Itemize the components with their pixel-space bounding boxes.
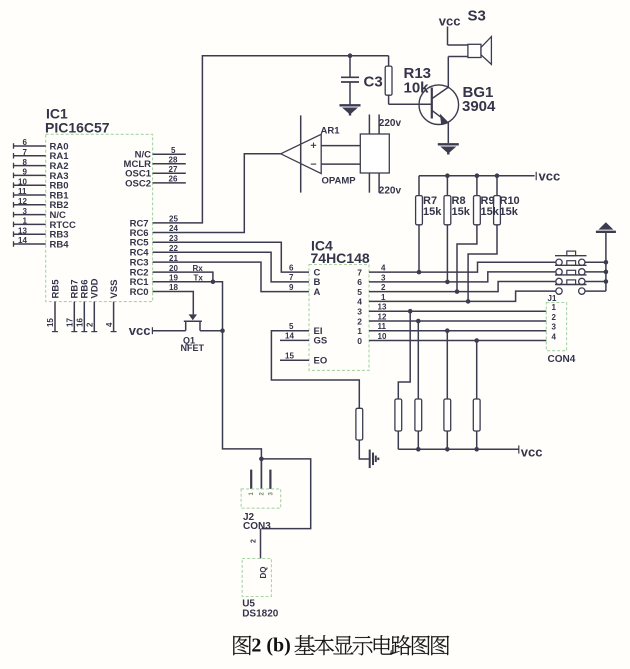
svg-text:2: 2	[357, 316, 362, 326]
svg-text:220v: 220v	[379, 118, 402, 129]
svg-text:CON4: CON4	[548, 354, 576, 365]
svg-text:3: 3	[552, 323, 557, 332]
svg-text:4: 4	[381, 264, 386, 273]
svg-text:17: 17	[66, 318, 75, 327]
svg-text:14: 14	[18, 236, 27, 245]
svg-text:7: 7	[23, 148, 28, 157]
svg-text:1: 1	[23, 217, 28, 226]
svg-text:DS1820: DS1820	[242, 609, 279, 620]
svg-text:15: 15	[46, 318, 55, 327]
svg-text:15k: 15k	[423, 206, 442, 218]
svg-text:EO: EO	[314, 356, 328, 367]
svg-text:6: 6	[23, 138, 28, 147]
svg-text:26: 26	[169, 175, 178, 184]
svg-text:Rx: Rx	[193, 264, 204, 273]
svg-text:10: 10	[18, 177, 27, 186]
svg-text:2: 2	[251, 539, 258, 543]
svg-text:NFET: NFET	[181, 343, 205, 353]
svg-text:6: 6	[357, 277, 362, 287]
svg-text:28: 28	[169, 156, 178, 165]
svg-text:PIC16C57: PIC16C57	[45, 120, 110, 136]
svg-text:27: 27	[169, 165, 178, 174]
svg-text:4: 4	[357, 297, 362, 307]
svg-text:15k: 15k	[500, 206, 519, 218]
svg-text:3: 3	[23, 207, 28, 216]
svg-text:5: 5	[171, 146, 176, 155]
svg-text:11: 11	[18, 187, 27, 196]
svg-text:16: 16	[76, 318, 85, 327]
svg-text:OPAMP: OPAMP	[322, 176, 357, 187]
svg-text:12: 12	[378, 312, 387, 321]
svg-text:7: 7	[357, 267, 362, 277]
svg-text:VSS: VSS	[109, 279, 120, 298]
svg-text:vcc: vcc	[539, 168, 561, 183]
svg-text:1: 1	[552, 303, 557, 312]
svg-text:2: 2	[381, 283, 386, 292]
svg-text:15: 15	[285, 352, 294, 361]
svg-text:vcc: vcc	[439, 14, 461, 29]
svg-text:1: 1	[381, 293, 386, 302]
svg-text:5: 5	[357, 287, 362, 297]
svg-text:5: 5	[289, 322, 294, 331]
svg-text:vcc: vcc	[129, 323, 151, 338]
svg-text:14: 14	[285, 332, 294, 341]
svg-text:4: 4	[552, 333, 557, 342]
svg-text:11: 11	[378, 322, 387, 331]
svg-text:2 (b): 2 (b)	[251, 635, 290, 657]
svg-text:CON3: CON3	[243, 521, 271, 532]
svg-text:3: 3	[357, 307, 362, 317]
svg-text:3: 3	[381, 273, 386, 282]
svg-text:1: 1	[357, 326, 362, 336]
svg-text:2: 2	[552, 313, 557, 322]
svg-text:13: 13	[378, 303, 387, 312]
svg-text:3904: 3904	[462, 98, 496, 115]
svg-text:6: 6	[289, 263, 294, 272]
svg-text:GS: GS	[314, 336, 328, 347]
svg-text:8: 8	[23, 158, 28, 167]
svg-text:15k: 15k	[481, 206, 500, 218]
svg-text:2: 2	[86, 322, 95, 327]
svg-text:74HC148: 74HC148	[311, 250, 370, 266]
svg-text:AR1: AR1	[321, 126, 341, 137]
svg-text:0: 0	[357, 336, 362, 346]
svg-text:7: 7	[289, 273, 294, 282]
svg-text:RB4: RB4	[50, 239, 70, 250]
svg-text:S3: S3	[468, 8, 486, 25]
svg-text:4: 4	[105, 322, 114, 327]
svg-text:A: A	[314, 287, 321, 298]
svg-text:OSC2: OSC2	[125, 178, 151, 189]
svg-text:RB5: RB5	[50, 279, 61, 299]
svg-text:10: 10	[378, 332, 387, 341]
svg-text:15k: 15k	[452, 206, 471, 218]
svg-text:J1: J1	[548, 294, 557, 303]
svg-text:C3: C3	[364, 74, 383, 91]
svg-text:vcc: vcc	[521, 444, 543, 459]
svg-text:Tx: Tx	[194, 273, 204, 282]
svg-text:10k: 10k	[404, 80, 430, 97]
svg-text:12: 12	[18, 197, 27, 206]
svg-text:9: 9	[23, 168, 28, 177]
svg-text:VDD: VDD	[90, 278, 101, 298]
svg-text:DQ: DQ	[259, 567, 268, 579]
svg-text:RC0: RC0	[130, 287, 149, 298]
svg-text:220v: 220v	[379, 185, 402, 196]
svg-text:9: 9	[289, 283, 294, 292]
svg-text:13: 13	[18, 226, 27, 235]
